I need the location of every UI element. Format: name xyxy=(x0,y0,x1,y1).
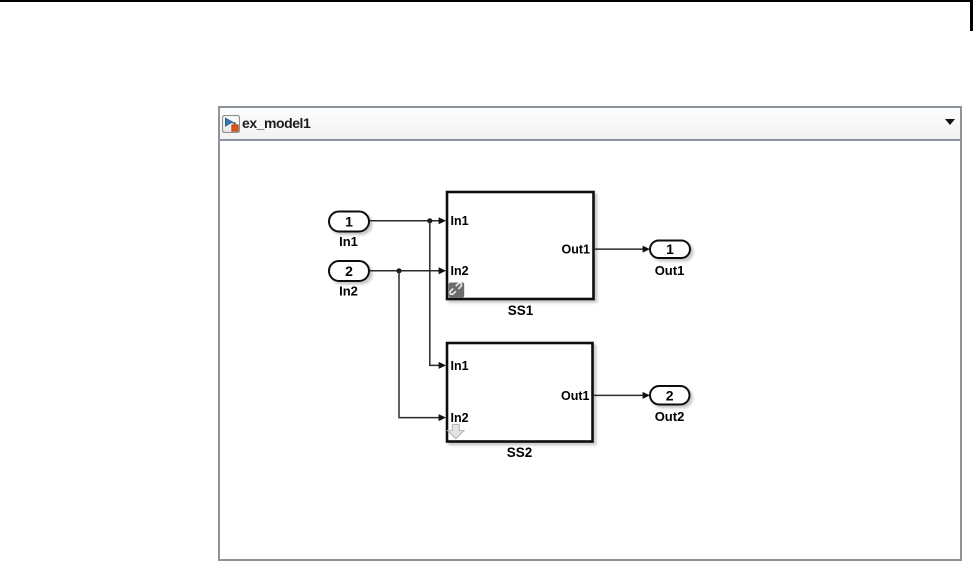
breadcrumb bar xyxy=(220,108,960,141)
breadcrumb title text ex_model1 xyxy=(242,108,310,139)
top-right vertical rule xyxy=(970,0,973,31)
junction on In1 wire xyxy=(427,218,432,223)
wire In2 to SS1/In2 xyxy=(370,267,447,274)
svg-text:In2: In2 xyxy=(451,264,469,278)
junction on In2 wire xyxy=(396,268,401,273)
subsystem SS2 xyxy=(447,343,593,460)
svg-text:2: 2 xyxy=(345,263,353,279)
library link badge on SS1 xyxy=(449,283,465,298)
subsystem SS1 xyxy=(447,192,594,318)
inport block In2 xyxy=(329,261,369,299)
wire In1 to SS1/In1 xyxy=(370,217,447,224)
svg-text:1: 1 xyxy=(666,241,674,257)
svg-text:Out1: Out1 xyxy=(655,263,685,278)
outport block Out1 xyxy=(650,241,690,279)
wire SS2/Out1 to Out2 xyxy=(593,392,650,399)
svg-text:In1: In1 xyxy=(339,234,358,249)
wire SS1/Out1 to Out1 xyxy=(594,246,650,253)
model window frame xyxy=(218,106,962,561)
inport block In1 xyxy=(329,212,369,250)
svg-text:2: 2 xyxy=(666,387,674,403)
svg-text:In1: In1 xyxy=(451,359,469,373)
outport block Out2 xyxy=(650,386,690,424)
top horizontal rule xyxy=(0,0,973,2)
svg-text:In1: In1 xyxy=(451,214,469,228)
wire branch In2 to SS2/In2 xyxy=(399,271,446,421)
svg-text:SS1: SS1 xyxy=(508,303,534,318)
svg-text:1: 1 xyxy=(345,214,353,230)
svg-text:In2: In2 xyxy=(451,411,469,425)
model badge icon button xyxy=(222,115,240,133)
svg-text:SS2: SS2 xyxy=(507,445,533,460)
svg-text:Out2: Out2 xyxy=(655,409,685,424)
breadcrumb dropdown arrow xyxy=(945,119,955,125)
wire branch In1 to SS2/In1 xyxy=(430,221,446,369)
svg-text:Out1: Out1 xyxy=(562,243,591,257)
svg-text:Out1: Out1 xyxy=(561,389,590,403)
svg-text:In2: In2 xyxy=(339,284,358,299)
test-pointed signal arrow badge on SS2 xyxy=(448,425,464,439)
